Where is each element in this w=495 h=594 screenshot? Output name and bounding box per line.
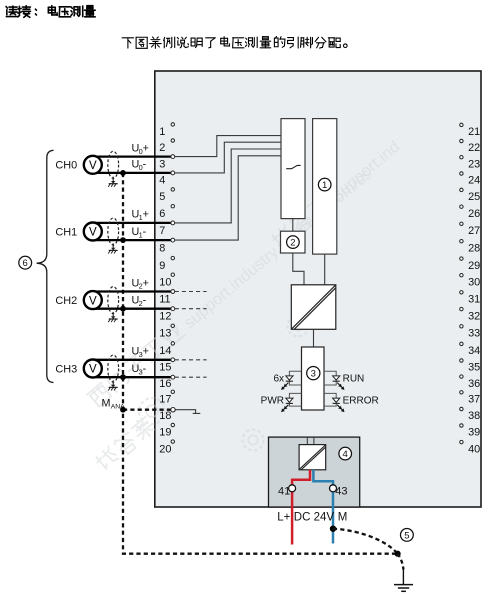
svg-text:30: 30 (468, 276, 480, 288)
svg-text:9: 9 (159, 260, 165, 272)
svg-text:11: 11 (159, 294, 170, 306)
svg-text:19: 19 (159, 427, 171, 439)
svg-text:V: V (89, 295, 97, 307)
svg-text:+: + (143, 142, 149, 154)
svg-text:V: V (89, 227, 97, 239)
svg-text:-: - (143, 363, 147, 375)
svg-text:6: 6 (23, 258, 28, 269)
svg-text:34: 34 (468, 345, 480, 357)
svg-text:43: 43 (335, 486, 347, 498)
svg-text:V: V (89, 160, 97, 172)
svg-text:15: 15 (159, 362, 171, 374)
svg-text:40: 40 (468, 443, 480, 455)
svg-text:16: 16 (159, 378, 171, 390)
svg-text:CH3: CH3 (55, 363, 77, 375)
svg-text:M: M (338, 511, 348, 523)
svg-text:4: 4 (159, 175, 165, 187)
svg-text:5: 5 (404, 530, 409, 541)
svg-text:38: 38 (468, 410, 480, 422)
svg-text:10: 10 (159, 276, 171, 288)
svg-text:PWR: PWR (261, 396, 284, 407)
svg-text:-: - (143, 159, 147, 171)
svg-text:35: 35 (468, 362, 480, 374)
svg-text:CH2: CH2 (55, 295, 77, 307)
svg-text:23: 23 (468, 158, 480, 170)
svg-text:13: 13 (159, 328, 171, 340)
svg-text:DC 24V: DC 24V (294, 511, 335, 523)
svg-text:1: 1 (322, 180, 327, 191)
svg-text:2: 2 (290, 238, 295, 249)
svg-text:2: 2 (159, 142, 165, 154)
svg-text:12: 12 (159, 310, 171, 322)
svg-text:ERROR: ERROR (343, 396, 379, 407)
svg-text:CH0: CH0 (55, 160, 77, 172)
svg-text:18: 18 (159, 410, 171, 422)
svg-text:33: 33 (468, 328, 480, 340)
svg-text:7: 7 (159, 225, 165, 237)
svg-text:-: - (143, 226, 147, 238)
svg-text:6x: 6x (273, 373, 284, 384)
svg-text:32: 32 (468, 310, 480, 322)
svg-text:28: 28 (468, 242, 480, 254)
svg-text:25: 25 (468, 191, 480, 203)
svg-text:3: 3 (311, 369, 316, 380)
svg-text:1: 1 (159, 126, 165, 138)
svg-text:5: 5 (159, 191, 165, 203)
svg-text:-: - (143, 295, 147, 307)
svg-text:+: + (143, 346, 149, 358)
svg-text:V: V (89, 364, 97, 376)
svg-text:L+: L+ (277, 511, 290, 523)
svg-text:41: 41 (278, 486, 290, 498)
svg-text:39: 39 (468, 427, 480, 439)
svg-text:31: 31 (468, 294, 480, 306)
svg-text:+: + (143, 277, 149, 289)
svg-text:29: 29 (468, 260, 480, 272)
svg-text:37: 37 (468, 394, 480, 406)
svg-text:21: 21 (468, 126, 480, 138)
svg-text:4: 4 (343, 449, 348, 460)
svg-text:+: + (143, 209, 149, 221)
svg-text:17: 17 (159, 394, 171, 406)
svg-text:27: 27 (468, 225, 480, 237)
svg-text:20: 20 (159, 443, 171, 455)
svg-text:M: M (102, 398, 111, 410)
svg-text:6: 6 (159, 208, 165, 220)
svg-text:36: 36 (468, 378, 480, 390)
svg-text:26: 26 (468, 208, 480, 220)
svg-text:RUN: RUN (343, 373, 365, 384)
svg-text:22: 22 (468, 142, 480, 154)
svg-text:24: 24 (468, 175, 480, 187)
svg-text:3: 3 (159, 158, 165, 170)
svg-text:14: 14 (159, 345, 171, 357)
svg-text:CH1: CH1 (55, 226, 77, 238)
svg-text:8: 8 (159, 242, 165, 254)
